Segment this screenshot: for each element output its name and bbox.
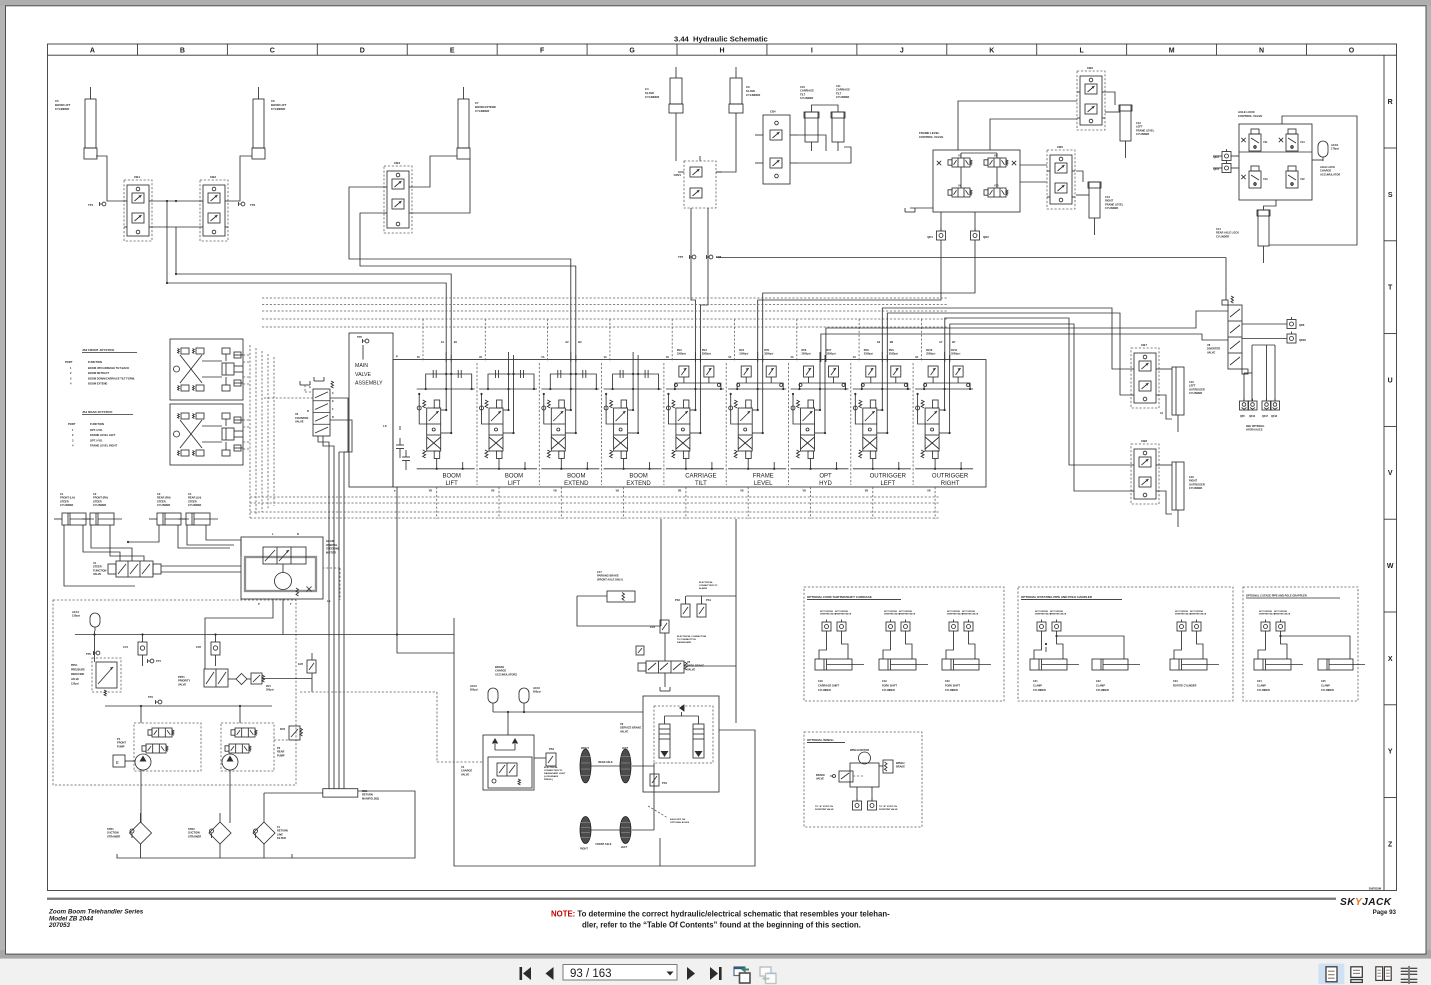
svg-text:3500psi: 3500psi bbox=[702, 352, 711, 355]
svg-text:OUTRIGGER: OUTRIGGER bbox=[1189, 482, 1205, 486]
toolbar page number field bbox=[563, 965, 677, 981]
svg-text:ACC3: ACC3 bbox=[533, 687, 540, 690]
wire opt hyd A to diverter bbox=[821, 334, 1228, 362]
svg-text:2500psi: 2500psi bbox=[802, 352, 811, 355]
svg-text:RV1: RV1 bbox=[266, 685, 271, 688]
svg-text:A1: A1 bbox=[441, 340, 445, 344]
pump supply manifold line bbox=[105, 705, 272, 707]
svg-text:PRESS.): PRESS.) bbox=[544, 779, 553, 781]
svg-text:VA: VA bbox=[604, 356, 607, 359]
wire axle lock to C14 bbox=[1264, 200, 1277, 210]
svg-text:CONNECTION TO: CONNECTION TO bbox=[699, 585, 718, 587]
svg-text:93 / 163: 93 / 163 bbox=[570, 968, 612, 980]
valve V3 brake charge bbox=[483, 735, 534, 790]
pressure switch PS3 bbox=[546, 753, 556, 766]
svg-text:DIVERTER VALVE: DIVERTER VALVE bbox=[879, 808, 898, 811]
quick disconnect QD16 bbox=[1248, 401, 1257, 410]
valve PRT1 priority bbox=[204, 669, 228, 687]
svg-text:JS2 FRONT JOYSTICK: JS2 FRONT JOYSTICK bbox=[82, 348, 115, 352]
wires V1 to steering motor bbox=[161, 565, 241, 567]
check valve CV1 bbox=[138, 642, 147, 655]
svg-text:(FRONT AXLE ONLY): (FRONT AXLE ONLY) bbox=[597, 577, 623, 581]
svg-text:DIVERTER VALVE: DIVERTER VALVE bbox=[1274, 613, 1291, 616]
svg-text:HYDRAULICS: HYDRAULICS bbox=[1246, 429, 1263, 432]
svg-text:P: P bbox=[396, 355, 398, 359]
accumulator ACC2 axle lock bbox=[1318, 141, 1328, 157]
svg-text:T: T bbox=[1388, 285, 1393, 292]
svg-text:ACCUMULATOR: ACCUMULATOR bbox=[1320, 172, 1340, 176]
svg-text:LIFT: LIFT bbox=[508, 481, 521, 487]
svg-text:C10: C10 bbox=[800, 85, 805, 89]
svg-text:2500psi: 2500psi bbox=[889, 352, 898, 355]
wire brake riser left bbox=[660, 519, 662, 626]
svg-text:BRAKE: BRAKE bbox=[816, 774, 825, 777]
svg-text:PRV1: PRV1 bbox=[71, 664, 78, 667]
svg-text:V6: V6 bbox=[620, 722, 624, 726]
optional box rotating pipe and pole handler bbox=[1018, 587, 1233, 701]
svg-text:K: K bbox=[989, 48, 994, 55]
svg-text:VB: VB bbox=[803, 490, 807, 493]
svg-text:V12: V12 bbox=[1300, 177, 1305, 181]
svg-text:TP1: TP1 bbox=[88, 203, 94, 207]
svg-text:OUTRIGGER: OUTRIGGER bbox=[932, 474, 969, 480]
svg-text:CYLINDER: CYLINDER bbox=[93, 503, 106, 507]
wire MB1 to filter bbox=[264, 792, 323, 794]
svg-text:C3: C3 bbox=[157, 492, 161, 496]
svg-text:FRONT AXLE: FRONT AXLE bbox=[596, 843, 612, 846]
wire boom extend B2 line bbox=[360, 213, 576, 362]
test point TP2 bbox=[241, 202, 245, 206]
svg-text:PRIORITY: PRIORITY bbox=[178, 679, 191, 683]
svg-text:QD2: QD2 bbox=[983, 235, 989, 239]
svg-text:VB: VB bbox=[553, 490, 557, 493]
optional box 2 stage pipe and pole grappler bbox=[1243, 587, 1358, 701]
toolbar previous page button bbox=[546, 967, 554, 980]
svg-text:DIVERTER VALVE: DIVERTER VALVE bbox=[815, 808, 834, 811]
accumulator ACC3 brake bbox=[519, 688, 529, 703]
wires CB7 to C15 bbox=[1159, 368, 1172, 370]
svg-text:C17: C17 bbox=[597, 570, 602, 574]
svg-text:ELECTRICAL CONNECTION: ELECTRICAL CONNECTION bbox=[677, 635, 707, 638]
wire return right trunk bbox=[454, 618, 755, 866]
svg-text:FILTER: FILTER bbox=[277, 836, 286, 840]
svg-text:REAR (LH): REAR (LH) bbox=[188, 496, 201, 500]
svg-text:REAR: REAR bbox=[277, 750, 284, 754]
svg-text:ACCUMULATORS: ACCUMULATORS bbox=[495, 672, 517, 676]
svg-text:VB: VB bbox=[927, 490, 931, 493]
svg-text:STEERING: STEERING bbox=[326, 547, 340, 551]
svg-text:CYLINDER: CYLINDER bbox=[188, 503, 201, 507]
optional box winch bbox=[804, 732, 922, 827]
main valve section OUTRIGGER RIGHT (section 9) bbox=[912, 363, 914, 485]
wire CB4 to C11 bbox=[798, 147, 851, 163]
svg-text:CYLINDER: CYLINDER bbox=[475, 109, 489, 113]
counterbalance valve CB2 bbox=[200, 180, 228, 241]
svg-text:V8: V8 bbox=[1207, 343, 1211, 347]
dashed pilot bus upper bbox=[262, 297, 948, 299]
wire boom extend A2 line bbox=[349, 187, 571, 362]
svg-text:REDUCING: REDUCING bbox=[71, 673, 84, 676]
svg-text:QD1: QD1 bbox=[927, 235, 933, 239]
pressure switch PS4 bbox=[650, 774, 659, 786]
svg-text:CYLINDER: CYLINDER bbox=[1321, 689, 1334, 692]
svg-text:QD5: QD5 bbox=[1240, 416, 1245, 418]
svg-text:CB6: CB6 bbox=[1087, 66, 1093, 70]
svg-text:ASSEMBLY: ASSEMBLY bbox=[355, 381, 383, 387]
svg-text:VALVE: VALVE bbox=[355, 372, 371, 378]
dashed pilot droppers bbox=[422, 319, 424, 362]
svg-text:V4: V4 bbox=[461, 765, 465, 769]
svg-text:STEER: STEER bbox=[157, 499, 166, 503]
cylinder C10 carriage tilt bbox=[805, 112, 818, 142]
valve frame level control V7-V10 bbox=[933, 150, 1020, 212]
svg-text:A7: A7 bbox=[939, 340, 943, 344]
cylinder C11 carriage tilt bbox=[832, 112, 844, 142]
test point TP5 bbox=[96, 651, 100, 655]
wires V2 to return bundle bbox=[318, 436, 329, 789]
svg-text:C20: C20 bbox=[945, 680, 950, 683]
svg-text:TILT: TILT bbox=[800, 92, 806, 96]
svg-text:NOTE: To determine the correct: NOTE: To determine the correct hydraulic… bbox=[551, 910, 890, 919]
svg-text:B6: B6 bbox=[890, 340, 894, 344]
svg-text:TILT: TILT bbox=[695, 481, 707, 487]
svg-text:170psi: 170psi bbox=[1331, 147, 1339, 151]
main valve section FRAME LEVEL (section 6) bbox=[725, 363, 727, 485]
wire outrigger right A7 bbox=[945, 318, 1131, 465]
svg-text:FUNCTION: FUNCTION bbox=[88, 360, 102, 364]
relief valve RV1 bbox=[251, 673, 262, 684]
svg-text:C21: C21 bbox=[1033, 680, 1038, 683]
wire accumulators to charge valve bbox=[492, 707, 494, 712]
svg-text:EXTEND: EXTEND bbox=[564, 481, 589, 487]
wire CB1-CB2 link bbox=[152, 200, 200, 202]
joystick JS1 rear bbox=[170, 404, 243, 465]
svg-text:COUNTER: COUNTER bbox=[295, 416, 308, 420]
svg-text:OPTIONAL FORK SHIFTER/SHIFT CA: OPTIONAL FORK SHIFTER/SHIFT CARRIAGE bbox=[807, 595, 872, 599]
svg-text:CYLINDER: CYLINDER bbox=[157, 503, 170, 507]
svg-text:CYLINDER: CYLINDER bbox=[1216, 234, 1229, 238]
wire C9 down bbox=[716, 113, 736, 172]
wire frame level to CB6 lower bbox=[990, 119, 1077, 150]
svg-text:B: B bbox=[180, 48, 185, 55]
svg-text:B: B bbox=[307, 410, 309, 413]
wire tilt cylinder tops bbox=[812, 105, 839, 112]
svg-text:OPT. HYD.: OPT. HYD. bbox=[90, 438, 103, 442]
svg-text:C13: C13 bbox=[1105, 195, 1110, 199]
svg-text:ROTATE CYLINDER: ROTATE CYLINDER bbox=[1173, 685, 1197, 688]
quick disconnect QD1 bbox=[937, 231, 946, 240]
svg-text:HYD: HYD bbox=[819, 481, 832, 487]
wire boom lift B1 line bbox=[176, 227, 451, 362]
load sense accumulator bbox=[396, 444, 404, 446]
svg-text:VALVE: VALVE bbox=[620, 729, 629, 733]
svg-text:J: J bbox=[900, 48, 904, 55]
wire outrigger right B7 bbox=[950, 324, 1131, 491]
svg-text:207053: 207053 bbox=[48, 922, 71, 929]
load sense accumulator 2 bbox=[402, 456, 410, 458]
svg-text:CONTROL VALVE: CONTROL VALVE bbox=[919, 135, 943, 139]
svg-text:AXLE DIFF ON: AXLE DIFF ON bbox=[670, 818, 686, 821]
test point TP1 bbox=[102, 202, 106, 206]
svg-text:CB8: CB8 bbox=[1141, 439, 1147, 443]
svg-text:REAR AXLE LOCK: REAR AXLE LOCK bbox=[1216, 231, 1239, 235]
accumulator ACC2 brake bbox=[488, 688, 498, 703]
test point TP7 bbox=[692, 255, 696, 259]
dashed wire to charge valve bbox=[300, 691, 437, 693]
svg-text:STR1: STR1 bbox=[107, 827, 114, 831]
svg-text:LEFT: LEFT bbox=[1189, 384, 1196, 388]
svg-text:CARRIAGE: CARRIAGE bbox=[800, 89, 814, 93]
svg-text:SEE OPTIONAL: SEE OPTIONAL bbox=[1246, 425, 1265, 428]
svg-text:BRAKE: BRAKE bbox=[896, 766, 905, 769]
toolbar dock icon disabled bbox=[760, 967, 771, 976]
quick disconnect QD6 bbox=[1287, 320, 1296, 329]
svg-text:ACC2: ACC2 bbox=[470, 685, 477, 688]
toolbar two page continuous icon bbox=[1401, 967, 1408, 969]
svg-text:R: R bbox=[1388, 99, 1393, 106]
svg-text:CV1: CV1 bbox=[123, 645, 129, 649]
svg-text:OPTIONAL ROTATING PIPE AND POL: OPTIONAL ROTATING PIPE AND POLE HANDLER bbox=[1021, 595, 1093, 599]
svg-text:PORT: PORT bbox=[65, 360, 73, 364]
svg-text:G: G bbox=[629, 48, 635, 55]
check valve CV2 bbox=[211, 642, 220, 655]
svg-text:MOTOR: MOTOR bbox=[326, 550, 336, 554]
svg-text:TP8: TP8 bbox=[716, 255, 722, 259]
svg-text:A6: A6 bbox=[877, 340, 881, 344]
cylinder C3 rear RH steer bbox=[157, 513, 181, 525]
wire clamp shared bbox=[1057, 636, 1125, 659]
svg-text:PUMP: PUMP bbox=[117, 744, 125, 748]
svg-text:P2: P2 bbox=[277, 746, 281, 750]
svg-text:X: X bbox=[1388, 656, 1393, 663]
svg-text:dler, refer to the “Table Of C: dler, refer to the “Table Of Contents” f… bbox=[582, 921, 861, 930]
svg-text:P: P bbox=[258, 602, 260, 606]
winch brake bbox=[883, 760, 893, 773]
wires steering motor bbox=[205, 599, 273, 669]
svg-text:V2: V2 bbox=[295, 412, 299, 416]
svg-text:CYLINDER: CYLINDER bbox=[60, 503, 73, 507]
svg-text:FRAME: FRAME bbox=[753, 474, 774, 480]
wires diverter to aux QDs bbox=[1243, 373, 1245, 401]
quick disconnect QD2 bbox=[971, 231, 980, 240]
svg-text:EV2: EV2 bbox=[298, 662, 303, 666]
svg-text:VALVE: VALVE bbox=[687, 667, 696, 671]
svg-text:VALVE: VALVE bbox=[93, 572, 102, 576]
wires CB8 to C16 bbox=[1159, 464, 1172, 466]
wire axle lock loop bbox=[1269, 116, 1357, 245]
wire QD1 to main valve bbox=[758, 240, 941, 362]
svg-text:B7: B7 bbox=[952, 340, 956, 344]
svg-text:REAR AXLE: REAR AXLE bbox=[598, 761, 613, 764]
svg-text:RV3: RV3 bbox=[280, 727, 286, 731]
svg-text:FRAME LEVEL: FRAME LEVEL bbox=[1136, 128, 1155, 132]
svg-text:RIGHT: RIGHT bbox=[1105, 199, 1113, 203]
svg-text:CYLINDER: CYLINDER bbox=[55, 107, 69, 111]
svg-text:BOOM DOWN/CARRIAGE TILT FORW.: BOOM DOWN/CARRIAGE TILT FORW. bbox=[88, 376, 135, 380]
svg-text:VALVE: VALVE bbox=[816, 778, 824, 781]
quick disconnect QD3 bbox=[1222, 152, 1231, 161]
toolbar single page layout selected bbox=[1319, 964, 1345, 985]
svg-text:C11: C11 bbox=[836, 84, 841, 88]
svg-text:OPTIONAL AXLES: OPTIONAL AXLES bbox=[670, 821, 690, 824]
cylinder C4 slave bbox=[670, 78, 682, 104]
solenoid valve EV3 bbox=[660, 620, 669, 633]
svg-text:BOOM RETRACT: BOOM RETRACT bbox=[88, 371, 110, 375]
svg-text:ACC1: ACC1 bbox=[72, 610, 80, 614]
svg-text:F: F bbox=[540, 48, 545, 55]
cylinder C5 boom lift bbox=[85, 99, 96, 148]
cylinder C12 left frame level bbox=[1120, 105, 1131, 141]
svg-text:A: A bbox=[90, 48, 95, 55]
svg-text:TO PUSHBUTTON: TO PUSHBUTTON bbox=[677, 639, 696, 641]
svg-text:DASHBOARD LIGHT: DASHBOARD LIGHT bbox=[544, 772, 566, 775]
wire carriage tilt A5 line bbox=[691, 208, 695, 362]
svg-text:BRAKE: BRAKE bbox=[495, 665, 504, 669]
svg-text:120psi: 120psi bbox=[72, 614, 80, 618]
svg-text:D: D bbox=[332, 416, 334, 419]
wire brake supply vertical bbox=[686, 595, 736, 597]
wire diverter riser bbox=[1225, 258, 1227, 301]
cylinder C9 slave bbox=[730, 78, 742, 104]
wire opt hyd B to diverter bbox=[826, 311, 1228, 362]
svg-text:LIFT: LIFT bbox=[446, 481, 459, 487]
svg-text:C15: C15 bbox=[1189, 380, 1194, 384]
optional box fork shifter / shift carriage bbox=[804, 587, 1004, 701]
wire C4 down bbox=[675, 113, 677, 161]
svg-text:BOOM: BOOM bbox=[443, 474, 461, 480]
main valve section CARRIAGE TILT (section 5) bbox=[663, 363, 665, 485]
wire CB4 to C10 bbox=[798, 135, 826, 151]
svg-text:PRESSURE: PRESSURE bbox=[71, 669, 85, 672]
svg-text:CYLINDER: CYLINDER bbox=[1257, 689, 1270, 692]
svg-text:STRAINER: STRAINER bbox=[188, 834, 201, 838]
svg-text:Page 93: Page 93 bbox=[1373, 909, 1397, 916]
toolbar undock icon bbox=[734, 967, 745, 976]
svg-text:FORK SHIFT: FORK SHIFT bbox=[945, 685, 960, 688]
svg-text:2500psi: 2500psi bbox=[827, 352, 836, 355]
test point TP6 bbox=[365, 339, 369, 343]
quick disconnect QD18 bbox=[1271, 401, 1280, 410]
svg-text:LINE: LINE bbox=[277, 832, 283, 836]
svg-text:EXTEND: EXTEND bbox=[626, 481, 651, 487]
svg-text:AXLE LOCK: AXLE LOCK bbox=[1320, 165, 1335, 169]
svg-text:CYLINDER: CYLINDER bbox=[882, 689, 895, 692]
svg-text:DIVERTER VALVE: DIVERTER VALVE bbox=[899, 613, 916, 616]
svg-text:OPTIONAL WINCH: OPTIONAL WINCH bbox=[807, 738, 833, 742]
svg-text:C4: C4 bbox=[188, 492, 192, 496]
svg-text:CYLINDER: CYLINDER bbox=[836, 95, 849, 99]
svg-text:2500psi: 2500psi bbox=[951, 352, 960, 355]
svg-text:C23: C23 bbox=[1173, 680, 1178, 683]
svg-text:SUCTION: SUCTION bbox=[107, 831, 119, 835]
svg-text:3500psi: 3500psi bbox=[764, 352, 773, 355]
wires winch QDs bbox=[856, 787, 858, 801]
wheel front right bbox=[580, 817, 591, 844]
svg-text:C12: C12 bbox=[1136, 121, 1141, 125]
wheel rear right bbox=[580, 749, 591, 783]
svg-text:S: S bbox=[1388, 192, 1393, 199]
svg-text:CHARGE: CHARGE bbox=[461, 769, 473, 773]
svg-text:DIVERTER VALVE: DIVERTER VALVE bbox=[1190, 613, 1207, 616]
svg-text:A2: A2 bbox=[565, 340, 569, 344]
svg-text:FORK SHIFT: FORK SHIFT bbox=[882, 685, 897, 688]
svg-text:CYLINDER: CYLINDER bbox=[818, 689, 831, 692]
wire frame level to CB5 bbox=[1020, 164, 1047, 166]
wires joysticks to pilot bus bbox=[243, 354, 250, 356]
svg-text:CB3: CB3 bbox=[394, 161, 400, 165]
valve axle lock control V11-V14 bbox=[1239, 124, 1312, 200]
svg-text:CLAMP: CLAMP bbox=[1033, 685, 1042, 688]
main valve section BOOM LIFT (section 1) bbox=[426, 374, 472, 389]
svg-text:650psi: 650psi bbox=[470, 689, 478, 692]
svg-text:TO “A” PORT ON: TO “A” PORT ON bbox=[815, 805, 833, 808]
svg-text:ELECTRICAL: ELECTRICAL bbox=[699, 581, 714, 584]
svg-text:CYLINDER: CYLINDER bbox=[800, 96, 813, 100]
counterbalance valve CB6 bbox=[1077, 71, 1105, 130]
toolbar continuous layout icon bbox=[1351, 967, 1363, 978]
svg-text:LEFT: LEFT bbox=[621, 846, 628, 849]
svg-text:2500psi: 2500psi bbox=[864, 352, 873, 355]
svg-text:STEER: STEER bbox=[93, 565, 102, 569]
wire C6 to CB2 bbox=[228, 156, 252, 201]
valve PRV1 pressure reducing bbox=[92, 658, 121, 692]
svg-text:EV3: EV3 bbox=[650, 625, 655, 629]
svg-text:CRV1: CRV1 bbox=[674, 173, 682, 177]
cylinder C7 boom extend bbox=[458, 99, 469, 148]
svg-text:VB: VB bbox=[616, 490, 620, 493]
svg-text:CYLINDER: CYLINDER bbox=[1096, 689, 1109, 692]
main valve section OPT HYD (section 7) bbox=[788, 363, 790, 485]
supply line steer bbox=[75, 634, 454, 636]
quick disconnect QD17 bbox=[1262, 401, 1271, 410]
svg-text:ALARM: ALARM bbox=[699, 587, 707, 590]
svg-text:VALVE: VALVE bbox=[71, 678, 79, 681]
svg-text:RIGHT: RIGHT bbox=[941, 481, 960, 487]
svg-text:DIVERTER: DIVERTER bbox=[1207, 347, 1220, 351]
svg-text:VA: VA bbox=[853, 356, 856, 359]
wire outrigger left B6 bbox=[887, 313, 1131, 395]
svg-text:QD6: QD6 bbox=[1299, 323, 1305, 327]
svg-text:FRONT (LH): FRONT (LH) bbox=[60, 496, 75, 500]
svg-text:STEER: STEER bbox=[188, 499, 197, 503]
dashed pilot bus left verticals bbox=[249, 345, 251, 518]
svg-text:CLAMP: CLAMP bbox=[1257, 685, 1266, 688]
counterbalance valve CB1 bbox=[124, 180, 152, 241]
svg-text:TP2: TP2 bbox=[250, 203, 256, 207]
wire brake riser right bbox=[735, 519, 737, 596]
wires V6 to axles bbox=[632, 765, 654, 767]
svg-text:VALVE: VALVE bbox=[461, 772, 470, 776]
svg-text:T: T bbox=[394, 489, 396, 493]
svg-text:VA: VA bbox=[417, 356, 420, 359]
svg-text:CB4: CB4 bbox=[770, 110, 776, 114]
svg-text:RIGHT: RIGHT bbox=[580, 848, 588, 851]
wire boom lift A1 line bbox=[167, 201, 446, 362]
valve V5 park brake bbox=[646, 661, 684, 673]
svg-text:C: C bbox=[270, 48, 275, 55]
main valve section BOOM EXTEND (section 4) bbox=[601, 363, 603, 485]
svg-text:DIVERTER VALVE: DIVERTER VALVE bbox=[835, 613, 852, 616]
valve V8 diverter bbox=[1228, 305, 1242, 369]
svg-text:CHARGE: CHARGE bbox=[1320, 169, 1332, 173]
svg-text:QD17: QD17 bbox=[1262, 416, 1269, 418]
svg-text:BOOM: BOOM bbox=[567, 474, 585, 480]
cylinder C22 clamp bbox=[1092, 659, 1128, 670]
svg-text:OPT: OPT bbox=[819, 474, 832, 480]
quick disconnect winch B bbox=[868, 801, 877, 810]
pump P2 rear bbox=[221, 723, 274, 771]
svg-text:E: E bbox=[116, 760, 119, 765]
